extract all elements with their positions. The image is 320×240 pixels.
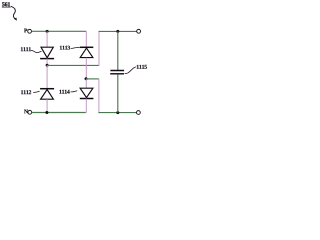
label P [24, 29, 27, 33]
label 1114 [59, 90, 69, 94]
node: junction N rail / left leg [45, 111, 48, 114]
wire: right leg top vertical [85, 31, 87, 47]
node: junction P rail / left leg [46, 30, 49, 33]
leader for 1114 [71, 91, 78, 92]
capacitor C 1115 [110, 71, 124, 74]
wire: N rail to corner under diode 1114 [32, 112, 86, 114]
diode 1112 [40, 89, 54, 100]
wire: diode 1113 anode down to mid node (crosses + bus, no dot) [85, 58, 87, 79]
label 1112 [21, 90, 31, 94]
wire: capacitor top lead [117, 31, 119, 70]
wire: bottom output rail [98, 112, 136, 114]
node: junction top rail / capacitor [116, 30, 119, 33]
wire: P to corner above diode 1113 (top-left rail) [32, 30, 87, 32]
terminal P [28, 29, 32, 33]
leader for 1113 [71, 47, 80, 48]
diode 1113 [80, 47, 94, 57]
leader arrow from 561 [11, 6, 17, 20]
node: right leg midpoint (-) [85, 77, 88, 80]
leader for 1112 [33, 91, 39, 92]
figure number 561 [2, 2, 11, 7]
node: junction bottom rail / capacitor [116, 111, 119, 114]
wire: top output rail [99, 30, 137, 32]
diode 1111 [40, 47, 54, 58]
wire: mid horizontal (+ bus to right) [47, 64, 99, 66]
wire: capacitor bottom lead [117, 74, 119, 112]
leader for 1111 [31, 50, 42, 52]
wire: diode 1111 cathode to mid node [46, 59, 48, 66]
wire: - riser down to bottom output rail [98, 79, 100, 113]
label N [24, 110, 28, 114]
terminal output + [137, 29, 141, 33]
wire: diode 1112 to N rail [46, 99, 48, 112]
terminal N [28, 110, 32, 114]
wire: - node to riser [86, 78, 99, 80]
terminal output - [137, 111, 141, 115]
leader for 1115 [125, 67, 137, 74]
wire: right leg mid to diode 1114 [85, 79, 87, 88]
wire: + bus riser (mid wire up to top output rail) [98, 31, 100, 66]
label 1111 [21, 47, 31, 51]
wire: diode 1114 cathode to N rail corner [85, 99, 87, 114]
wire: left leg vertical (purple) [46, 31, 48, 47]
label 1115 [137, 65, 147, 69]
label 1113 [60, 46, 70, 50]
wire: left leg mid to diode 1112 [46, 65, 48, 88]
diode 1114 [80, 88, 94, 98]
node: left leg midpoint (+) [46, 64, 49, 67]
